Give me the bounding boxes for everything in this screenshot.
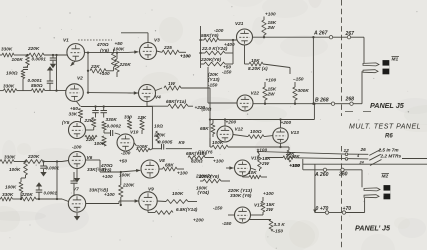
- resistor 3.3K V17 cathode: [249, 220, 285, 234]
- potentiometer 100K V8: [119, 169, 140, 178]
- node row2 junction: [55, 89, 57, 91]
- resistor 330 V10 plate: [124, 115, 132, 130]
- node +70 right: [342, 211, 345, 214]
- svg-text:R6: R6: [385, 134, 393, 140]
- node A260 left: [323, 168, 326, 171]
- text +100 mid: [180, 54, 191, 59]
- wire A260 line: [303, 169, 362, 171]
- svg-text:68K(Y1a): 68K(Y1a): [166, 99, 187, 104]
- tube V4: [139, 85, 162, 102]
- resistor 22K V1: [90, 64, 106, 73]
- resistor 330K row4: [1, 192, 14, 201]
- resistor 100ohm V12-V13: [233, 129, 273, 139]
- svg-text:V1: V1: [63, 38, 69, 43]
- text 33K(1/2B): [87, 166, 106, 172]
- svg-text:2W: 2W: [261, 161, 270, 166]
- text 0 +70: [316, 206, 329, 212]
- svg-text:M2: M2: [382, 174, 389, 180]
- svg-text:100Ω: 100Ω: [6, 71, 18, 76]
- potentiometer 100K V3: [113, 47, 139, 54]
- tube V3: [140, 38, 161, 60]
- ground V6 cathode: [74, 169, 80, 183]
- svg-text:10K: 10K: [248, 170, 257, 175]
- svg-text:330K: 330K: [106, 117, 118, 122]
- text 260 right: [338, 172, 348, 178]
- resistor 100K shunt row3b: [5, 182, 23, 193]
- wire V2 cathode: [77, 102, 81, 107]
- text 68K(Y16): [186, 151, 207, 156]
- svg-text:(Y5: (Y5: [62, 120, 70, 125]
- text PANEL J5 bottom: [355, 224, 391, 233]
- svg-text:8.20K (x): 8.20K (x): [248, 66, 268, 71]
- wire M1 pin1 drop: [363, 37, 365, 63]
- svg-text:10K: 10K: [251, 58, 260, 63]
- svg-text:V17: V17: [254, 203, 263, 208]
- text 4a 24: [356, 154, 365, 164]
- resistor 22K V16 out: [283, 151, 300, 168]
- svg-text:220K(Y6): 220K(Y6): [198, 174, 220, 179]
- svg-text:330K: 330K: [3, 83, 15, 88]
- wire M1 pin2 drop: [361, 71, 363, 103]
- text B 268: [315, 98, 329, 104]
- text +50 V8: [119, 159, 127, 164]
- svg-text:100Ω: 100Ω: [250, 129, 262, 134]
- svg-text:-100: -100: [121, 151, 131, 156]
- svg-text:+50: +50: [115, 41, 123, 46]
- wire B-line: [253, 103, 362, 105]
- resistor 22.0K(Y24): [201, 46, 234, 55]
- svg-text:100K: 100K: [113, 47, 125, 52]
- resistor 10K V21 cathode: [245, 45, 291, 74]
- wire V13 cathode: [280, 143, 282, 147]
- resistor 10K V16: [243, 170, 268, 179]
- wire A-line: [253, 36, 365, 38]
- svg-text:0.0002: 0.0002: [107, 124, 122, 129]
- wire V21 grid bus: [199, 26, 201, 68]
- capacitor rail b: [100, 107, 107, 118]
- svg-text:22K: 22K: [84, 118, 94, 123]
- capacitor interstage row1: [23, 65, 28, 71]
- svg-text:V21: V21: [235, 21, 244, 26]
- capacitor 0.0002: [104, 130, 120, 136]
- svg-text:+200: +200: [193, 218, 204, 223]
- arrow into V9 grid: [131, 199, 139, 202]
- text 268 right: [345, 97, 355, 103]
- tube V21: [235, 21, 253, 45]
- text -100 V10: [121, 151, 131, 156]
- text 100K(Y04): [195, 174, 213, 196]
- svg-text:100K: 100K: [137, 144, 149, 149]
- text +100 top: [265, 12, 276, 17]
- wire bus rows3-4: [56, 162, 58, 200]
- svg-text:V9: V9: [148, 187, 154, 192]
- tube V6: [69, 152, 93, 169]
- tube V12: [217, 120, 243, 143]
- resistor 100K V9 plate: [157, 191, 197, 204]
- svg-text:+100: +100: [102, 174, 113, 179]
- svg-text:V12: V12: [235, 127, 244, 132]
- wire cathode rail y147: [210, 140, 289, 153]
- text -200: [0, 0, 1, 1]
- wire box left vertical: [313, 164, 316, 213]
- text -150 V17grid: [213, 206, 223, 211]
- svg-text:+100: +100: [290, 163, 301, 168]
- tube V13: [273, 120, 299, 144]
- svg-text:300K: 300K: [298, 88, 310, 93]
- wire 33K to V5: [80, 118, 82, 122]
- wire V1 to V3 pot: [87, 51, 126, 53]
- resistor 58K(Y6): [201, 33, 237, 42]
- svg-text:–150: –150: [293, 77, 304, 82]
- text +100 V8a: [102, 174, 113, 179]
- svg-text:V10: V10: [130, 130, 139, 135]
- svg-text:260: 260: [338, 172, 348, 178]
- wire M2 pin2 riser: [364, 198, 366, 213]
- text 267 right: [345, 31, 356, 37]
- svg-text:V22: V22: [251, 91, 260, 96]
- svg-text:220K: 220K: [122, 183, 135, 188]
- node row3 junction: [24, 160, 58, 162]
- svg-text:PANEL’ J5: PANEL’ J5: [355, 224, 391, 233]
- resistor 100ohm row1: [6, 71, 25, 79]
- wire V1 heater dashed: [78, 39, 112, 41]
- resistor 300K V22: [293, 77, 310, 104]
- wire V4 plate drop: [209, 88, 211, 147]
- text 120 Y13: [208, 72, 220, 82]
- text 33K(1/2B) V7: [89, 187, 115, 198]
- dashed boundary bottom: [341, 146, 343, 250]
- svg-text:330K: 330K: [2, 192, 14, 197]
- svg-text:+100: +100: [99, 71, 110, 76]
- svg-text:K9: K9: [179, 140, 185, 145]
- svg-text:M1: M1: [392, 57, 399, 63]
- svg-text:220K: 220K: [153, 133, 166, 138]
- svg-text:220K(Y6): 220K(Y6): [200, 57, 222, 62]
- wire V22 grid: [208, 67, 237, 103]
- svg-text:100K: 100K: [12, 57, 24, 62]
- capacitor 0.0001 row1b: [28, 66, 54, 90]
- text +70 right: [343, 206, 352, 212]
- node A right: [347, 36, 350, 39]
- svg-text:100K: 100K: [5, 185, 17, 190]
- wire row1 input bus: [0, 54, 68, 56]
- svg-text:V3: V3: [154, 38, 160, 43]
- capacitor rail a: [92, 107, 99, 118]
- resistor 220K(Y6) V16: [198, 174, 230, 183]
- node A260 right: [341, 168, 344, 171]
- text M1: [392, 57, 400, 63]
- svg-text:6.8K(Y14): 6.8K(Y14): [176, 207, 198, 212]
- tube V17: [235, 203, 263, 224]
- tube V5: [62, 120, 86, 139]
- svg-text:+100: +100: [213, 159, 224, 164]
- resistor 6.8K V9 cathode: [148, 207, 204, 223]
- svg-text:26: 26: [360, 147, 367, 152]
- text 470ohm Y6: [100, 163, 113, 173]
- text 12 26: [344, 147, 367, 153]
- resistor 470 (Y6): [96, 42, 116, 71]
- svg-text:+70: +70: [343, 206, 352, 212]
- resistor 1W V4 plate: [156, 81, 211, 91]
- svg-text:68K: 68K: [165, 163, 174, 168]
- svg-text:+100: +100: [263, 191, 274, 196]
- text M2: [382, 174, 390, 180]
- arrow V1 cathode: [71, 61, 76, 67]
- wire V17 input: [228, 214, 235, 216]
- text +100 V1: [99, 71, 110, 76]
- svg-text:22K: 22K: [90, 64, 100, 69]
- svg-text:+100: +100: [180, 54, 191, 59]
- svg-text:0 +70: 0 +70: [316, 206, 329, 212]
- resistor 850ohm row2: [31, 83, 45, 93]
- capacitor 0.0001 row1: [32, 55, 57, 62]
- text 10ohm: [154, 124, 163, 129]
- resistor 220K V8 grid: [119, 171, 135, 206]
- resistor 22K V13 out: [287, 147, 300, 168]
- svg-text:470Ω: 470Ω: [96, 42, 109, 47]
- svg-text:850Ω: 850Ω: [31, 83, 43, 88]
- wire box corner: [302, 159, 304, 170]
- svg-text:330K: 330K: [1, 47, 13, 52]
- tube V16: [235, 156, 260, 177]
- node B left: [331, 102, 334, 105]
- resistor 330K row2: [3, 83, 17, 92]
- svg-text:12K: 12K: [138, 115, 147, 120]
- wire 100Kb to row4: [20, 193, 22, 200]
- wire bus rows1-2: [56, 55, 58, 91]
- arrow into V16 grid: [226, 166, 234, 169]
- svg-text:12: 12: [344, 148, 350, 153]
- tube V9: [139, 187, 157, 211]
- resistor 330K V5: [102, 117, 118, 130]
- svg-text:V6: V6: [87, 155, 93, 160]
- capacitor V7 plate: [71, 172, 78, 195]
- text +200 V13: [281, 120, 292, 125]
- svg-text:+100: +100: [266, 78, 277, 83]
- resistor 220K V3 grid: [115, 51, 132, 77]
- tube V22: [237, 91, 259, 112]
- svg-text:+50: +50: [70, 106, 78, 111]
- wire +50 rail: [81, 105, 152, 107]
- node row4 junction: [20, 198, 58, 200]
- text PANEL J5 top: [345, 101, 405, 112]
- svg-text:(Y04): (Y04): [198, 190, 210, 195]
- tube V8: [141, 158, 165, 178]
- svg-text:B 268: B 268: [315, 98, 329, 104]
- text -150 V22grid: [202, 83, 218, 112]
- connector M1: [363, 60, 389, 74]
- wire V7 to V9: [86, 201, 131, 204]
- wire 100K V12 drop: [209, 138, 211, 147]
- svg-text:220K: 220K: [21, 192, 34, 197]
- text +50 -150: [222, 65, 232, 75]
- wire V6 to pot: [86, 160, 121, 172]
- wire V1 plate bus: [85, 52, 90, 92]
- resistor 220K row1: [27, 46, 44, 57]
- resistor 15K 2W V22: [263, 78, 277, 104]
- svg-text:0.0005: 0.0005: [158, 140, 173, 145]
- arrow into V4 grid: [131, 91, 138, 94]
- tube V2: [66, 76, 84, 102]
- svg-text:V13: V13: [291, 130, 300, 135]
- resistor 22K V5-V10: [85, 135, 97, 142]
- resistor 68K V8 plate: [159, 163, 188, 176]
- ground row1 cap: [50, 61, 56, 69]
- resistor 330K row1: [1, 47, 14, 58]
- text -100 V5: [72, 145, 82, 150]
- wire +70 line: [315, 212, 365, 214]
- resistor 220K row3: [25, 154, 43, 164]
- svg-text:2.2 MTRs: 2.2 MTRs: [380, 154, 402, 159]
- node +70 left: [325, 211, 328, 214]
- svg-text:0.0001: 0.0001: [32, 57, 47, 62]
- node row1 junctions: [26, 54, 57, 56]
- svg-text:22.0 K(Y24): 22.0 K(Y24): [201, 46, 228, 51]
- text R6: [385, 134, 393, 140]
- resistor 220K(Y6) V21: [200, 57, 233, 66]
- resistor 225 V3 plate: [157, 45, 191, 59]
- text A 260: [314, 172, 329, 178]
- svg-text:A 260: A 260: [314, 172, 329, 178]
- wire vertical x313: [312, 36, 314, 105]
- svg-text:100K: 100K: [9, 167, 21, 172]
- wire line y165: [303, 160, 427, 166]
- text 820 +100: [191, 159, 224, 164]
- text +200 V12: [226, 119, 237, 124]
- wire +200 rail: [210, 104, 314, 121]
- wire 100K pair join: [21, 175, 26, 182]
- wire +50 feed V3: [115, 33, 149, 46]
- resistor 100ohm V10 out: [134, 143, 152, 152]
- svg-text:+100: +100: [104, 192, 115, 197]
- node A left: [329, 36, 332, 39]
- svg-text:-150: -150: [208, 83, 218, 88]
- text -100 V21: [214, 28, 224, 33]
- resistor 100K V5 grid: [94, 136, 106, 146]
- svg-text:-150: -150: [222, 221, 232, 226]
- svg-text:+200: +200: [226, 119, 237, 124]
- wire rail x152: [151, 107, 153, 149]
- resistor 100K shunt row3a: [9, 162, 27, 175]
- svg-text:268: 268: [345, 97, 355, 103]
- svg-text:-150: -150: [213, 206, 223, 211]
- wire row3 input: [14, 161, 62, 163]
- wire V6 input: [62, 161, 69, 162]
- node y160 right: [345, 158, 348, 161]
- wire line y154: [257, 150, 368, 154]
- svg-text:68K: 68K: [200, 126, 209, 131]
- svg-text:330K (Y6): 330K (Y6): [230, 193, 252, 198]
- svg-text:+100: +100: [177, 171, 188, 176]
- resistor 68K V12: [200, 120, 215, 138]
- resistor 220K row4: [21, 192, 37, 201]
- wire 22K to V5 plate: [86, 127, 94, 130]
- svg-text:24: 24: [359, 160, 365, 164]
- resistor 100K shunt row1: [12, 56, 30, 66]
- node B right: [350, 102, 353, 105]
- svg-text:33K: 33K: [69, 112, 78, 117]
- wire K9 out: [166, 140, 192, 149]
- svg-text:2W: 2W: [267, 25, 276, 30]
- tube V7: [68, 187, 85, 213]
- svg-text:220K: 220K: [27, 46, 40, 51]
- wire line y160: [266, 158, 427, 159]
- text 2.5 In 7m: [378, 148, 399, 153]
- tube V10: [117, 130, 139, 152]
- resistor 33K V2 cathode: [69, 106, 83, 118]
- svg-text:+200: +200: [281, 120, 292, 125]
- resistor 330K row3: [0, 155, 16, 164]
- svg-text:10Ω: 10Ω: [154, 124, 163, 129]
- wire M2 pin1 drop: [361, 170, 363, 188]
- wire 100ohm to row2: [22, 79, 24, 91]
- svg-text:225: 225: [163, 45, 172, 50]
- text 220K Y13: [227, 188, 252, 198]
- switch slash 2: [369, 154, 381, 160]
- capacitor 0.0001 row4: [36, 182, 58, 199]
- svg-text:+50: +50: [119, 159, 127, 164]
- svg-text:267: 267: [345, 31, 356, 37]
- wire row2 input: [0, 90, 66, 92]
- ground row3 cap: [40, 169, 46, 177]
- resistor 68K(Y1a) V4: [147, 99, 205, 110]
- text +100 V16b: [263, 191, 274, 196]
- svg-text:V4: V4: [155, 95, 161, 100]
- wire V7 input: [62, 199, 69, 202]
- dashed boundary top: [341, 0, 343, 116]
- svg-text:0.0001: 0.0001: [44, 191, 58, 196]
- resistor 15K 2W V17: [251, 197, 276, 215]
- svg-text:A 267: A 267: [313, 31, 329, 37]
- resistor 68K(Y16): [188, 156, 214, 160]
- svg-text:2W: 2W: [265, 207, 274, 212]
- text A 267: [313, 31, 329, 37]
- svg-text:-150: -150: [222, 70, 232, 75]
- ground V7 cathode: [74, 213, 80, 221]
- resistor 22K V5: [84, 118, 96, 128]
- text -150 V17: [222, 221, 232, 226]
- svg-text:330: 330: [124, 115, 132, 120]
- text MULT TEST PANE: [349, 124, 421, 131]
- wire row4 input: [0, 198, 62, 200]
- svg-text:820Ω: 820Ω: [191, 159, 203, 164]
- text +400: [224, 42, 235, 47]
- wire V21 right bus: [232, 39, 234, 64]
- text 0.0002: [107, 124, 122, 129]
- svg-text:(Y13): (Y13): [208, 77, 220, 82]
- connector M2: [364, 185, 390, 199]
- svg-text:2W: 2W: [267, 92, 276, 97]
- switch slash 1: [369, 149, 381, 155]
- text 1K Y6: [198, 150, 213, 155]
- text 22 MTRs: [380, 154, 402, 159]
- svg-text:100K: 100K: [172, 191, 184, 196]
- tube V1: [63, 38, 84, 62]
- resistor 15K 2W V21: [262, 17, 277, 38]
- resistor 15K 2W V16: [251, 152, 272, 172]
- resistor 220K 0.0005: [153, 131, 166, 143]
- svg-text:100K: 100K: [212, 140, 224, 145]
- svg-text:(1K (Y6: (1K (Y6: [198, 150, 213, 155]
- wire line y160 cont: [0, 0, 1, 1]
- capacitor shunt row3: [40, 162, 59, 171]
- svg-text:2.5 In 7m: 2.5 In 7m: [378, 148, 399, 153]
- resistor 12K: [138, 115, 147, 134]
- wire V2 to V4: [87, 91, 131, 93]
- capacitor 0.0005: [152, 140, 172, 150]
- svg-text:V2: V2: [77, 76, 83, 81]
- node y154 right: [345, 153, 348, 156]
